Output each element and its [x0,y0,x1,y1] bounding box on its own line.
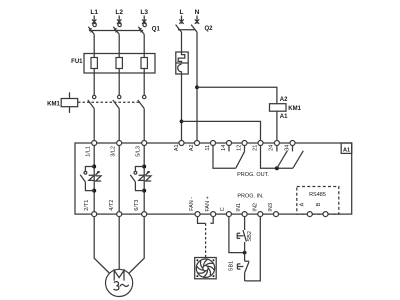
node N [195,9,200,24]
node L [179,9,183,24]
svg-text:12: 12 [236,145,242,151]
thyristor pair pole 1 [89,172,102,181]
svg-text:L3: L3 [140,9,148,16]
svg-text:N: N [195,9,200,16]
svg-text:RS485: RS485 [309,192,326,198]
node L1 [90,9,98,24]
svg-text:14: 14 [221,145,227,151]
pushbutton SB1 [229,253,250,281]
wire N to A2 terminal [196,32,198,140]
wire SB1 to IN2 [245,217,261,281]
internal pole 5/L3-6/T3 [142,146,146,212]
svg-text:11: 11 [205,145,211,151]
svg-text:SB2: SB2 [247,231,253,241]
wire L1 to FU1 [93,34,95,53]
svg-text:34: 34 [284,145,290,151]
soft starter A1 enclosure [75,143,352,214]
wire 2/T1 to motor [94,217,110,274]
wire KM1 to starter terminals [94,109,144,141]
wire to fan (dashed) [205,223,207,257]
contactor KM1 main contacts [78,95,146,108]
svg-text:IN3: IN3 [268,203,274,212]
svg-text:4/T2: 4/T2 [109,200,115,211]
terminals bottom edge [92,212,328,217]
motor M 3~ [106,269,133,296]
label box A1 [341,143,352,153]
svg-text:A2: A2 [280,97,288,103]
breaker Q2 trip unit [176,52,188,74]
terminals top edge [92,141,295,146]
svg-text:L1: L1 [90,9,98,16]
wire 6/T3 to motor [129,217,145,274]
svg-text:L: L [180,9,184,16]
node junction [243,251,247,255]
svg-text:3/L2: 3/L2 [111,146,117,157]
svg-text:KM1: KM1 [288,106,301,112]
svg-text:Q2: Q2 [205,26,214,32]
svg-text:A: A [300,202,306,206]
svg-text:C: C [220,207,226,211]
svg-text:FAN +: FAN + [205,196,211,211]
svg-text:KM1: KM1 [47,101,60,107]
svg-text:FAN -: FAN - [189,197,195,211]
svg-text:Q1: Q1 [152,27,161,33]
svg-text:B: B [316,202,322,206]
svg-text:IN1: IN1 [236,203,242,212]
wire L to trip unit [181,32,183,52]
svg-text:L2: L2 [115,9,123,16]
node L2 [115,9,123,24]
fuse FU1 [71,54,155,74]
svg-text:21: 21 [252,145,258,151]
relay contact 11-14-12 [213,146,245,169]
svg-text:A2: A2 [189,144,195,151]
svg-text:1/L1: 1/L1 [86,146,92,157]
relay contacts 21-24-34 [261,146,304,171]
svg-text:A1: A1 [174,144,180,151]
wire IN1 to SB2 [244,217,246,230]
wire FAN+ [210,217,213,224]
breaker Q2 [176,25,214,32]
svg-text:PROG. OUT.: PROG. OUT. [237,172,269,178]
wire FU1 to KM1 contacts [94,73,144,96]
thyristor pair pole 3 [139,172,152,181]
contactor KM1 coil (right) [270,97,302,120]
bypass contact pole 1 [80,167,94,191]
svg-text:24: 24 [269,145,275,151]
svg-text:IN2: IN2 [252,203,258,212]
wire C to junction [229,217,245,253]
fan [195,258,217,279]
wire KM1 coil to terminal 24 [276,111,278,140]
wire 4/T2 to motor [118,217,120,270]
bypass contact pole 3 [130,167,144,191]
breaker Q1 [88,23,160,34]
wire FAN- [198,217,206,224]
wire L3 to FU1 [143,34,145,53]
contactor KM1 coil (left) [47,92,78,113]
svg-text:A1: A1 [343,147,350,153]
svg-text:2/T1: 2/T1 [84,200,90,211]
terminal labels bottom row [84,196,322,211]
svg-text:SB1: SB1 [229,261,235,271]
svg-text:6/T3: 6/T3 [134,200,140,211]
svg-text:FU1: FU1 [71,59,83,65]
node on L line [180,120,184,124]
svg-text:A1: A1 [280,114,288,120]
wire L branch to terminal 21 [182,121,261,140]
svg-text:5/L3: 5/L3 [136,146,142,157]
terminal labels top row [86,144,291,156]
pushbutton SB2 [237,230,253,252]
internal pole 1/L1-2/T1 [92,146,96,212]
node L3 [140,9,148,24]
wire L to A1 terminal [181,74,183,141]
node on N line [195,85,199,89]
svg-text:PROG. IN.: PROG. IN. [237,193,264,199]
wire N branch to KM1 coil [197,87,277,103]
wire L2 to FU1 [118,34,120,53]
port RS485 [297,187,339,215]
internal pole 3/L2-4/T2 [118,146,120,212]
